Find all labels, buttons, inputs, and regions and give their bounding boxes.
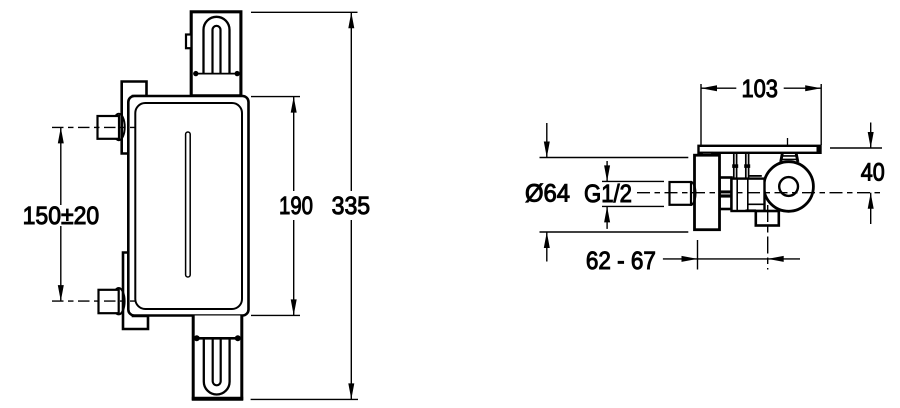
dim G1/2 arrowheads bbox=[604, 165, 610, 222]
dim 103 line bbox=[701, 87, 821, 89]
knob inner circle bbox=[779, 177, 798, 196]
body outer plate bbox=[128, 96, 248, 316]
outlet step right bbox=[779, 210, 785, 212]
dim 190 top extension bbox=[251, 96, 300, 98]
inlet flange bbox=[686, 182, 695, 205]
bottom connector flange bbox=[113, 288, 125, 314]
valve top step bbox=[749, 175, 762, 177]
svg-text:62 - 67: 62 - 67 bbox=[586, 247, 656, 275]
dim 40 line bbox=[870, 123, 872, 225]
dim 62-67 arrowheads bbox=[682, 256, 784, 262]
valve shank dark band 2 bbox=[720, 194, 732, 197]
dim 103 right extension bbox=[820, 84, 822, 145]
top inlet tab bbox=[186, 35, 191, 49]
outlet box bbox=[756, 211, 779, 226]
knob axis tick bbox=[787, 138, 789, 146]
dim 190 arrows bbox=[291, 97, 297, 316]
dim O64 arrowheads bbox=[544, 142, 550, 249]
bottom tube outer bbox=[204, 338, 230, 394]
top connector centreline bbox=[52, 126, 135, 128]
dim 335 line bbox=[350, 12, 352, 399]
bottom connector nut bbox=[99, 290, 119, 313]
dim 150+-20 line bbox=[60, 127, 62, 301]
wall bracket top lobe bbox=[122, 82, 147, 154]
valve block inner line 1 bbox=[736, 179, 738, 211]
svg-text:335: 335 bbox=[332, 192, 371, 220]
bottom outlet block bbox=[193, 316, 242, 399]
dim O64 bottom extension bbox=[540, 231, 689, 233]
dim 103 arrows bbox=[701, 85, 821, 91]
top tube outer bbox=[204, 17, 230, 74]
bottom tube seat line bbox=[197, 337, 239, 340]
screw bolt left foot bbox=[732, 164, 738, 168]
outlet step left bbox=[746, 209, 757, 211]
screw bolt right foot bbox=[744, 164, 750, 168]
dim 62-67 line bbox=[663, 258, 800, 260]
dim 150+-20 arrows bbox=[58, 127, 64, 301]
valve shank dark band 1 bbox=[720, 190, 732, 193]
dim G1/2 arrow lines bbox=[606, 161, 608, 229]
dim 335 bottom extension bbox=[251, 398, 358, 400]
wall block top notch bbox=[702, 153, 712, 156]
dim 40 extension bbox=[830, 147, 882, 149]
valve block inner line 2 bbox=[747, 179, 749, 211]
body centre slit bbox=[186, 132, 191, 277]
svg-text:40: 40 bbox=[861, 159, 885, 187]
dim G1/2 bottom extension bbox=[602, 205, 664, 207]
top tube seat right dot bbox=[235, 71, 240, 76]
top connector nut bbox=[98, 116, 120, 139]
svg-text:190: 190 bbox=[279, 192, 313, 220]
dim 190 line bbox=[293, 97, 295, 316]
outlet axis centreline bbox=[767, 205, 769, 270]
top inlet block bbox=[191, 12, 241, 96]
valve block bbox=[732, 179, 765, 211]
knob circle bbox=[764, 162, 814, 212]
dim 103 left extension bbox=[700, 84, 702, 145]
knob collar rings bbox=[781, 156, 798, 160]
dim O64 arrow lines bbox=[546, 123, 548, 262]
dim O64 top extension bbox=[540, 157, 689, 159]
dim 40 arrows bbox=[868, 132, 874, 209]
bottom tube seat right dot bbox=[235, 335, 241, 341]
knob collar bbox=[781, 154, 798, 163]
dim 335 top extension bbox=[251, 11, 358, 13]
screw bolt right under plate bbox=[746, 153, 749, 179]
bottom tube inner bbox=[213, 338, 221, 385]
main centreline bbox=[637, 192, 884, 194]
dim 62-67 left extension bbox=[697, 240, 699, 270]
screw bolt left under plate bbox=[734, 153, 737, 179]
wall plate right end cap bbox=[817, 146, 821, 154]
top connector flange bbox=[113, 114, 125, 140]
dim 335 arrows bbox=[348, 12, 354, 399]
wall plate bbox=[699, 146, 821, 153]
top tube inner bbox=[213, 26, 221, 74]
top tube seat line bbox=[196, 73, 238, 75]
inlet nut bbox=[670, 182, 692, 205]
wall bracket bottom lobe bbox=[123, 253, 148, 330]
valve shank body bbox=[720, 178, 732, 210]
body inner face bbox=[135, 103, 242, 309]
bottom connector centreline bbox=[52, 300, 135, 302]
bottom tube seat left dot bbox=[194, 335, 200, 341]
svg-text:Ø64: Ø64 bbox=[525, 179, 570, 207]
dim 190 bottom extension bbox=[251, 314, 300, 316]
svg-text:150±20: 150±20 bbox=[23, 202, 100, 230]
valve block inner horizontal bbox=[748, 203, 765, 205]
bottom outlet block bottom edge bbox=[192, 397, 243, 401]
top tube seat left dot bbox=[193, 71, 198, 76]
dim G1/2 top extension bbox=[602, 180, 664, 182]
svg-text:G1/2: G1/2 bbox=[584, 180, 632, 208]
svg-text:103: 103 bbox=[741, 75, 778, 103]
wall block bbox=[695, 155, 720, 230]
